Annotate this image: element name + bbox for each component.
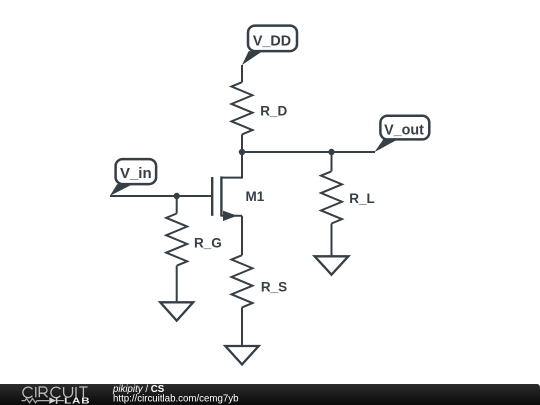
resistor R_D [232, 82, 253, 134]
ground (R_G) [160, 302, 193, 320]
CircuitLab logo wordmark CIRCUIT (stroked letters) [23, 387, 88, 398]
wire: R_S bottom to ground [241, 307, 243, 346]
wire: R_L bottom to ground [331, 224, 333, 257]
resistor R_S [232, 255, 253, 307]
wire: V_in tip to gate [110, 195, 211, 197]
net flag V_out [375, 116, 430, 152]
node: R_L tap junction dot [328, 149, 334, 155]
ground (R_S) [225, 346, 258, 364]
footer bar [0, 384, 540, 405]
logo resistor zigzag [22, 398, 50, 402]
svg-text:M1: M1 [246, 189, 265, 204]
wire: R_D bottom lead to drain node [241, 134, 243, 152]
ground (R_L) [315, 256, 349, 274]
net flag V_DD [242, 26, 297, 65]
wire: R_L tap down to R_L [331, 152, 333, 171]
svg-text:V_out: V_out [384, 122, 424, 138]
logo diode [49, 397, 56, 404]
node: gate junction dot [174, 193, 180, 199]
transistor M1 source lead with arrow [221, 215, 242, 217]
node: drain junction dot [239, 149, 245, 155]
wire: V_DD flag tip to R_D top lead [241, 65, 243, 82]
svg-text:R_L: R_L [349, 191, 375, 206]
transistor M1 channel bar [220, 176, 222, 216]
svg-text:R_G: R_G [194, 236, 222, 251]
svg-text:http://circuitlab.com/cemg7yb: http://circuitlab.com/cemg7yb [113, 393, 238, 404]
wire: R_G bottom to ground [176, 266, 178, 303]
svg-text:R_D: R_D [260, 103, 287, 118]
wire: drain node horizontal to V_out tail tip [242, 151, 375, 153]
svg-text:V_DD: V_DD [253, 33, 291, 49]
resistor R_L [321, 171, 342, 223]
resistor R_G [166, 214, 187, 266]
net flag V_in [110, 159, 156, 196]
wire: gate node down to R_G [176, 196, 178, 214]
svg-text:R_S: R_S [261, 280, 287, 295]
transistor M1 (NMOS) gate bar [211, 177, 213, 216]
wire: drain node down to M1 drain [221, 152, 242, 178]
svg-text:LAB: LAB [64, 397, 90, 405]
svg-text:V_in: V_in [120, 165, 152, 182]
wire: M1 source down to R_S [241, 216, 243, 255]
